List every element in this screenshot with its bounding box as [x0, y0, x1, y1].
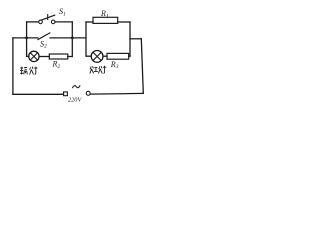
wire top branch left segment — [27, 21, 39, 23]
svg-text:S1: S1 — [59, 7, 66, 17]
resistor R3 box — [107, 53, 129, 59]
source terminal right — [86, 91, 90, 95]
svg-text:220V: 220V — [68, 96, 82, 103]
lamp green circle — [29, 51, 39, 61]
svg-text:R1: R1 — [100, 9, 109, 19]
wire R1 branch left — [86, 21, 93, 23]
switch S1 lever — [41, 15, 54, 20]
label red lamp (hand-drawn CJK) — [90, 66, 106, 74]
source tilde — [73, 86, 80, 88]
resistor R1 box — [93, 17, 118, 23]
source terminal left — [64, 92, 68, 96]
svg-text:R3: R3 — [110, 60, 119, 70]
wire jog D to outer right — [130, 38, 141, 40]
switch S2 lever — [38, 33, 50, 40]
wire top branch right segment — [55, 21, 72, 23]
wire bus right of S2 — [50, 37, 86, 39]
wire vertical C — [86, 22, 91, 56]
wire outer left vertical — [12, 38, 14, 94]
wire lamp to R2 — [39, 56, 49, 58]
wire bottom bus right — [90, 92, 143, 95]
switch S1 contact right — [51, 20, 55, 24]
wire bus left of S2 — [13, 37, 38, 39]
wire R1 branch right — [118, 21, 130, 23]
switch S1 handle tick — [47, 15, 49, 20]
label green lamp (hand-drawn CJK) — [20, 67, 37, 75]
junction dot A — [25, 37, 28, 40]
wire vertical B — [71, 22, 73, 57]
lamp red cross — [93, 52, 101, 60]
lamp red circle — [91, 51, 103, 63]
lamp green cross — [30, 53, 37, 60]
wire lamp red to R3 — [103, 55, 107, 57]
wire outer right vertical — [141, 39, 143, 94]
switch S1 contact left — [39, 20, 43, 24]
wire vertical D — [129, 22, 131, 56]
wire vertical node A left — [27, 22, 29, 57]
wire R2 to vertical B — [68, 56, 73, 58]
resistor R2 box — [49, 54, 68, 59]
wire R3 to vertical D — [129, 55, 130, 57]
svg-text:S2: S2 — [40, 39, 47, 49]
svg-text:R2: R2 — [52, 60, 61, 70]
wire bottom bus left — [13, 93, 64, 95]
junction dot B — [71, 37, 74, 40]
